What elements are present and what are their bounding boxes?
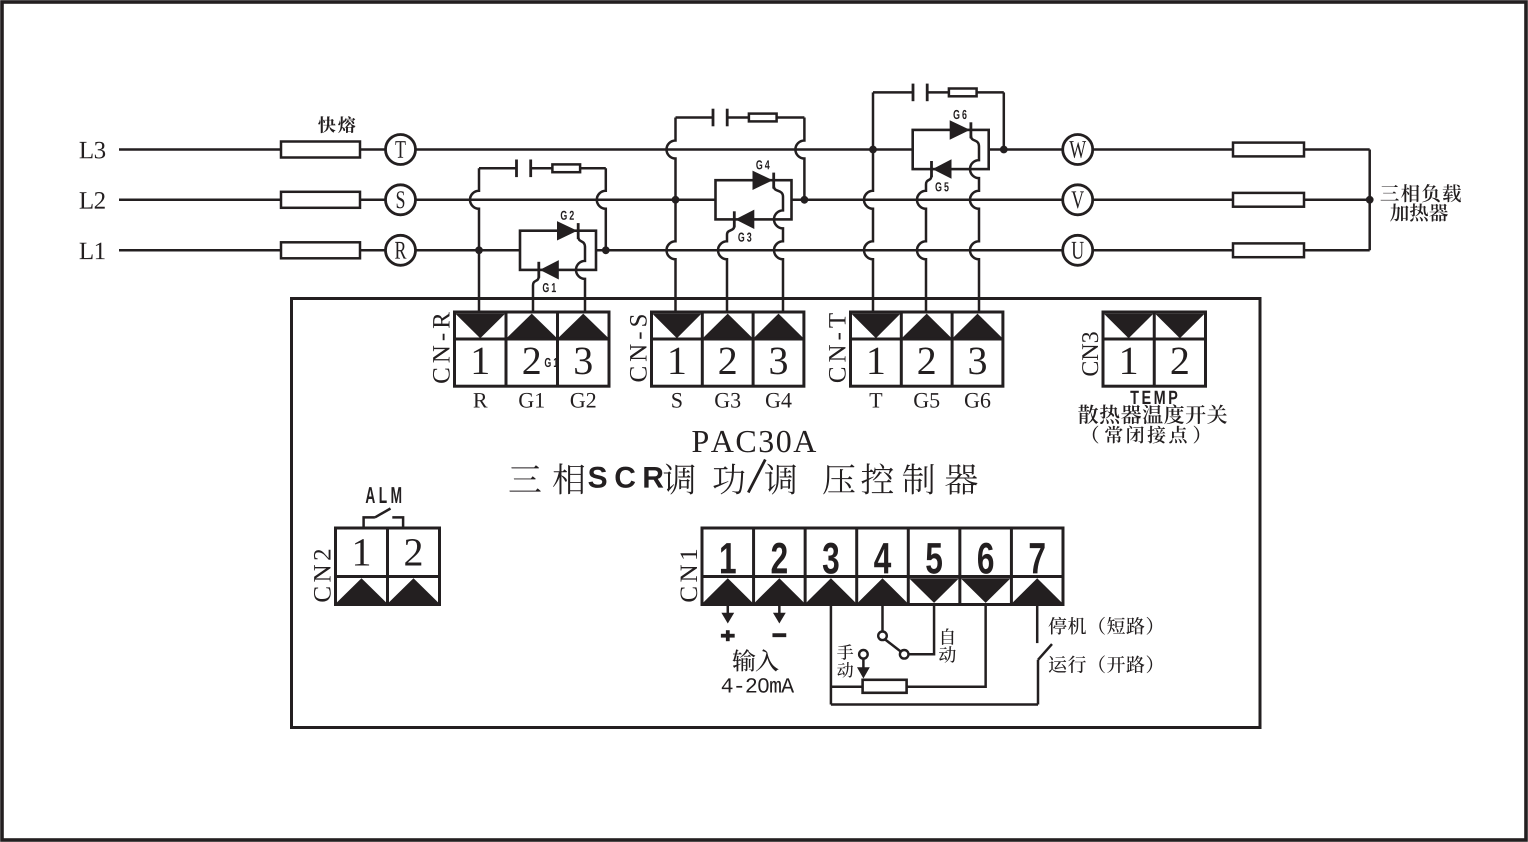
node load star point junction <box>1366 196 1374 204</box>
label G3 <box>738 233 744 242</box>
node module 1 right junction <box>602 246 610 254</box>
wire gate G4 to terminal <box>774 186 783 314</box>
terminal CN-S pin number 2 <box>719 348 735 374</box>
wire L2 input segment <box>119 199 281 202</box>
terminal CN-T pin 3 label G6 <box>965 393 979 408</box>
terminal CN1 pin number 2 <box>772 543 787 574</box>
label G4 <box>756 160 762 169</box>
load label 三相负载 <box>1381 185 1399 201</box>
wire T phase to SCR module 3 <box>416 148 913 151</box>
terminal CN-R pin number 1 <box>474 348 488 374</box>
node L3 label <box>80 142 93 158</box>
terminal CN-R pin 1 entry arrow <box>455 314 505 339</box>
terminal CN-S pin number 1 <box>670 348 684 374</box>
terminal CN1 pin number 5 <box>926 543 942 574</box>
wire module 1 right vertical (snubber to phase) <box>597 168 606 250</box>
thyristor G6 <box>950 120 970 139</box>
wiper arrowhead into potentiometer <box>857 667 870 678</box>
wire auto contact to CN1-5 <box>909 605 935 655</box>
wire capacitor to resistor module 2 <box>727 116 749 119</box>
terminal CN1 pin 1 arrow <box>703 578 753 603</box>
terminal CN2 pin number 2 <box>405 539 421 565</box>
terminal CN-T pin 2 entry arrow <box>902 314 951 338</box>
wire fuse F3 to terminal T <box>360 148 386 151</box>
wire gate G3 to terminal <box>718 226 734 314</box>
label 自动 <box>942 628 954 645</box>
terminal CN-S pin 3 entry arrow <box>754 314 803 338</box>
wire module 2 left vertical (snubber to phase) <box>667 118 676 200</box>
terminal CN-R pin 2 label G1 <box>519 393 533 408</box>
label 停机（短路） <box>1049 617 1067 635</box>
wire gate G1 to terminal <box>533 276 539 313</box>
terminal block label CN1 <box>680 550 697 602</box>
terminal block label CN3 <box>1082 332 1098 375</box>
potentiometer RP <box>863 680 907 693</box>
fuse F3 (L3 fast-acting fuse) <box>281 142 360 158</box>
thyristor G1 <box>540 260 559 279</box>
terminal CN-T pin 2 label G5 <box>914 393 928 408</box>
terminal CN-S pin number 3 <box>770 348 787 375</box>
wire rail up to run/stop switch <box>1037 660 1040 705</box>
heater element RL2 <box>1233 193 1304 207</box>
wire SCR module 2 to terminal V <box>792 199 1063 202</box>
wire R phase to SCR module 1 <box>416 249 521 252</box>
terminal CN-R pin 3 label G2 <box>571 393 585 408</box>
terminal block CN-R <box>455 312 610 386</box>
label 输入 <box>732 649 755 671</box>
terminal CN-T pin 3 entry arrow <box>953 314 1002 338</box>
wire heater RL2 to star point bus <box>1304 199 1370 202</box>
terminal CN1 pin number 1 <box>721 543 736 573</box>
terminal block label CN-T <box>829 313 846 382</box>
thyristor G2 <box>557 221 577 240</box>
wire CN1-4 to mode switch pole <box>881 605 884 632</box>
terminal CN2 pin 1 arrow <box>336 578 386 603</box>
terminal T <box>386 135 416 165</box>
terminal CN-S pin 1 entry arrow <box>652 314 701 339</box>
terminal CN-T pin 1 entry arrow <box>851 314 900 339</box>
node L2 label <box>80 192 93 208</box>
manual wiper contact <box>859 650 868 659</box>
ALM relay contact blade <box>375 509 391 518</box>
label G2 <box>561 211 567 220</box>
terminal CN-S pin 2 label G3 <box>715 393 729 408</box>
label 运行（开路） <box>1049 656 1067 673</box>
fuse F1 (L1 fast-acting fuse) <box>281 242 360 258</box>
wire resistor to right drop module 3 <box>977 91 1004 94</box>
terminal CN1 pin 5 arrow <box>909 578 959 603</box>
wire S phase to SCR module 2 <box>416 199 716 202</box>
wire potentiometer right lead to CN1-6 <box>907 605 986 687</box>
terminal CN-T pin number 3 <box>969 348 986 375</box>
label - (input negative) <box>772 633 786 637</box>
wire module 3 left vertical (snubber to phase) <box>872 92 875 149</box>
wire potentiometer left lead <box>831 685 863 688</box>
terminal CN3 pin 1 entry arrow <box>1104 314 1154 339</box>
node module 2 right junction <box>801 196 809 204</box>
thyristor G4 <box>753 171 773 190</box>
terminal CN-R pin 1 label R <box>474 393 488 407</box>
node module 3 left junction <box>869 146 877 154</box>
terminal R <box>386 235 416 265</box>
wire resistor to right drop module 1 <box>580 167 606 170</box>
terminal CN-R pin 2 small G1 note <box>545 358 551 367</box>
thyristor G3 <box>735 210 754 229</box>
wire snubber top of module 1 <box>479 167 517 170</box>
label + (input positive) <box>721 634 735 638</box>
node L1 label <box>80 243 93 259</box>
label G5 <box>935 182 941 191</box>
terminal block label CN-R <box>433 312 450 383</box>
label G1 <box>543 283 549 292</box>
run/stop switch blade (open) <box>1038 644 1052 660</box>
load label 加热器 <box>1390 204 1408 222</box>
resistor R3 (snubber) <box>949 89 977 97</box>
capacitor C1 (snubber) <box>515 160 518 178</box>
wire gate G6 to terminal <box>970 136 979 314</box>
terminal U <box>1063 235 1093 265</box>
wire CN1-3 down to common rail <box>830 605 833 705</box>
ALM relay contact left lead <box>364 517 375 529</box>
terminal block CN-S <box>652 312 804 386</box>
mode switch auto contact <box>900 650 909 659</box>
terminal CN3 pin number 2 <box>1172 348 1188 374</box>
arrowhead CN1-1 <box>721 613 734 624</box>
label G6 <box>953 110 959 119</box>
wire V to heater resistor <box>1093 199 1233 202</box>
terminal CN1 pin 6 arrow <box>961 578 1011 603</box>
wire L3 input segment <box>119 148 281 151</box>
label 4-20mA <box>722 678 733 692</box>
wire gate G5 to terminal <box>917 176 931 314</box>
terminal block CN3 <box>1103 312 1206 386</box>
terminal CN1 pin 3 arrow <box>806 578 856 603</box>
arrowhead CN1-2 <box>773 613 786 624</box>
wire snubber top of module 3 <box>873 91 913 94</box>
node module 2 left junction <box>672 196 680 204</box>
capacitor C2 (snubber) <box>712 109 715 127</box>
wire module 3 right vertical (snubber to phase) <box>1003 92 1006 149</box>
terminal block CN2 <box>336 528 440 605</box>
terminal CN-R pin number 3 <box>575 348 592 375</box>
terminal V <box>1063 185 1093 215</box>
terminal CN-R pin 3 entry arrow <box>558 314 608 338</box>
SCR module box 1 <box>520 231 596 270</box>
wire snubber top of module 2 <box>676 116 714 119</box>
terminal CN-S pin 2 entry arrow <box>703 314 752 338</box>
terminal CN-T pin 1 label T <box>870 393 883 407</box>
wire SCR module 1 to terminal U <box>596 249 1063 252</box>
terminal W <box>1063 135 1093 165</box>
label 散热器温度开关 <box>1078 405 1098 424</box>
terminal CN2 pin 2 arrow <box>388 578 438 603</box>
wire module 1 left vertical (snubber to phase) <box>470 168 479 250</box>
label （常闭接点） <box>1093 426 1099 444</box>
ALM relay contact right lead <box>392 517 403 529</box>
wire module 3 left to terminal pin 1 <box>864 150 873 314</box>
heater element RL3 <box>1233 143 1304 157</box>
terminal CN-T pin number 1 <box>869 348 883 374</box>
terminal CN1 pin number 4 <box>874 543 891 573</box>
terminal CN3 pin 2 entry arrow <box>1155 314 1205 339</box>
wire common bottom rail <box>831 703 1038 706</box>
wire resistor to right drop module 2 <box>777 116 805 119</box>
wire L1 input segment <box>119 249 281 252</box>
node module 1 left junction <box>475 246 483 254</box>
terminal block label CN2 <box>314 550 331 602</box>
wire U to heater resistor <box>1093 249 1233 252</box>
terminal CN1 pin number 3 <box>823 543 839 574</box>
wire capacitor to resistor module 3 <box>927 91 949 94</box>
terminal S <box>386 185 416 215</box>
terminal CN-R pin number 2 <box>524 348 540 374</box>
mode switch pole contact <box>878 632 887 641</box>
title 三相SCR调功/调压控制器 <box>509 465 540 491</box>
terminal CN-T pin number 2 <box>918 348 934 374</box>
capacitor C3 (snubber) <box>912 84 915 102</box>
thyristor G5 <box>933 159 952 178</box>
SCR module box 3 <box>913 130 989 169</box>
terminal CN1 pin number 6 <box>978 543 993 574</box>
wire CN1-2 input stub <box>778 605 781 615</box>
terminal CN1 pin 7 arrow <box>1012 578 1062 603</box>
wire CN1-1 input stub <box>727 605 730 615</box>
terminal CN1 pin 2 arrow <box>754 578 804 603</box>
wire module 2 right vertical (snubber to phase) <box>795 118 804 200</box>
terminal CN3 pin number 1 <box>1122 348 1136 374</box>
terminal CN2 pin number 1 <box>355 539 369 565</box>
wire module 1 left to terminal pin 1 <box>478 250 481 313</box>
resistor R2 (snubber) <box>749 114 777 122</box>
wire W to heater resistor <box>1093 148 1233 151</box>
SCR module box 2 <box>716 180 792 219</box>
terminal CN-S pin 3 label G4 <box>766 393 780 408</box>
label TEMP <box>1130 391 1138 404</box>
fuse F2 (L2 fast-acting fuse) <box>281 192 360 208</box>
wire fuse F1 to terminal R <box>360 249 386 252</box>
terminal CN-R pin 2 entry arrow <box>507 314 557 338</box>
terminal block CN1 <box>702 528 1063 605</box>
title PAC30A <box>692 431 708 452</box>
heater element RL1 <box>1233 243 1304 257</box>
terminal CN1 pin number 7 <box>1030 543 1045 573</box>
terminal block label CN-S <box>630 315 647 381</box>
wire gate G2 to terminal <box>576 236 585 313</box>
label 手动 <box>837 644 853 660</box>
node module 3 right junction <box>1000 146 1008 154</box>
wire heater RL3 to star point bus <box>1304 148 1370 151</box>
label ALM <box>366 487 375 503</box>
wire module 2 left to terminal pin 1 <box>667 200 676 314</box>
terminal block CN-T <box>851 312 1003 386</box>
wire fuse F2 to terminal S <box>360 199 386 202</box>
terminal CN1 pin 4 arrow <box>858 578 908 603</box>
wire heater RL1 to star point bus <box>1304 249 1370 252</box>
title slash <box>748 460 765 493</box>
wire load star bus <box>1368 150 1371 251</box>
wire CN1-7 to run/stop switch <box>1036 605 1039 644</box>
resistor R1 (snubber) <box>552 164 580 172</box>
mode switch blade to auto contact <box>885 639 901 651</box>
fuse label 快熔 <box>318 116 335 133</box>
controller PAC30A outline box <box>292 299 1261 728</box>
wire SCR module 3 to terminal W <box>989 148 1062 151</box>
wiper arrow stem <box>862 659 865 669</box>
terminal CN-S pin 1 label S <box>672 393 681 408</box>
wire capacitor to resistor module 1 <box>531 167 553 170</box>
